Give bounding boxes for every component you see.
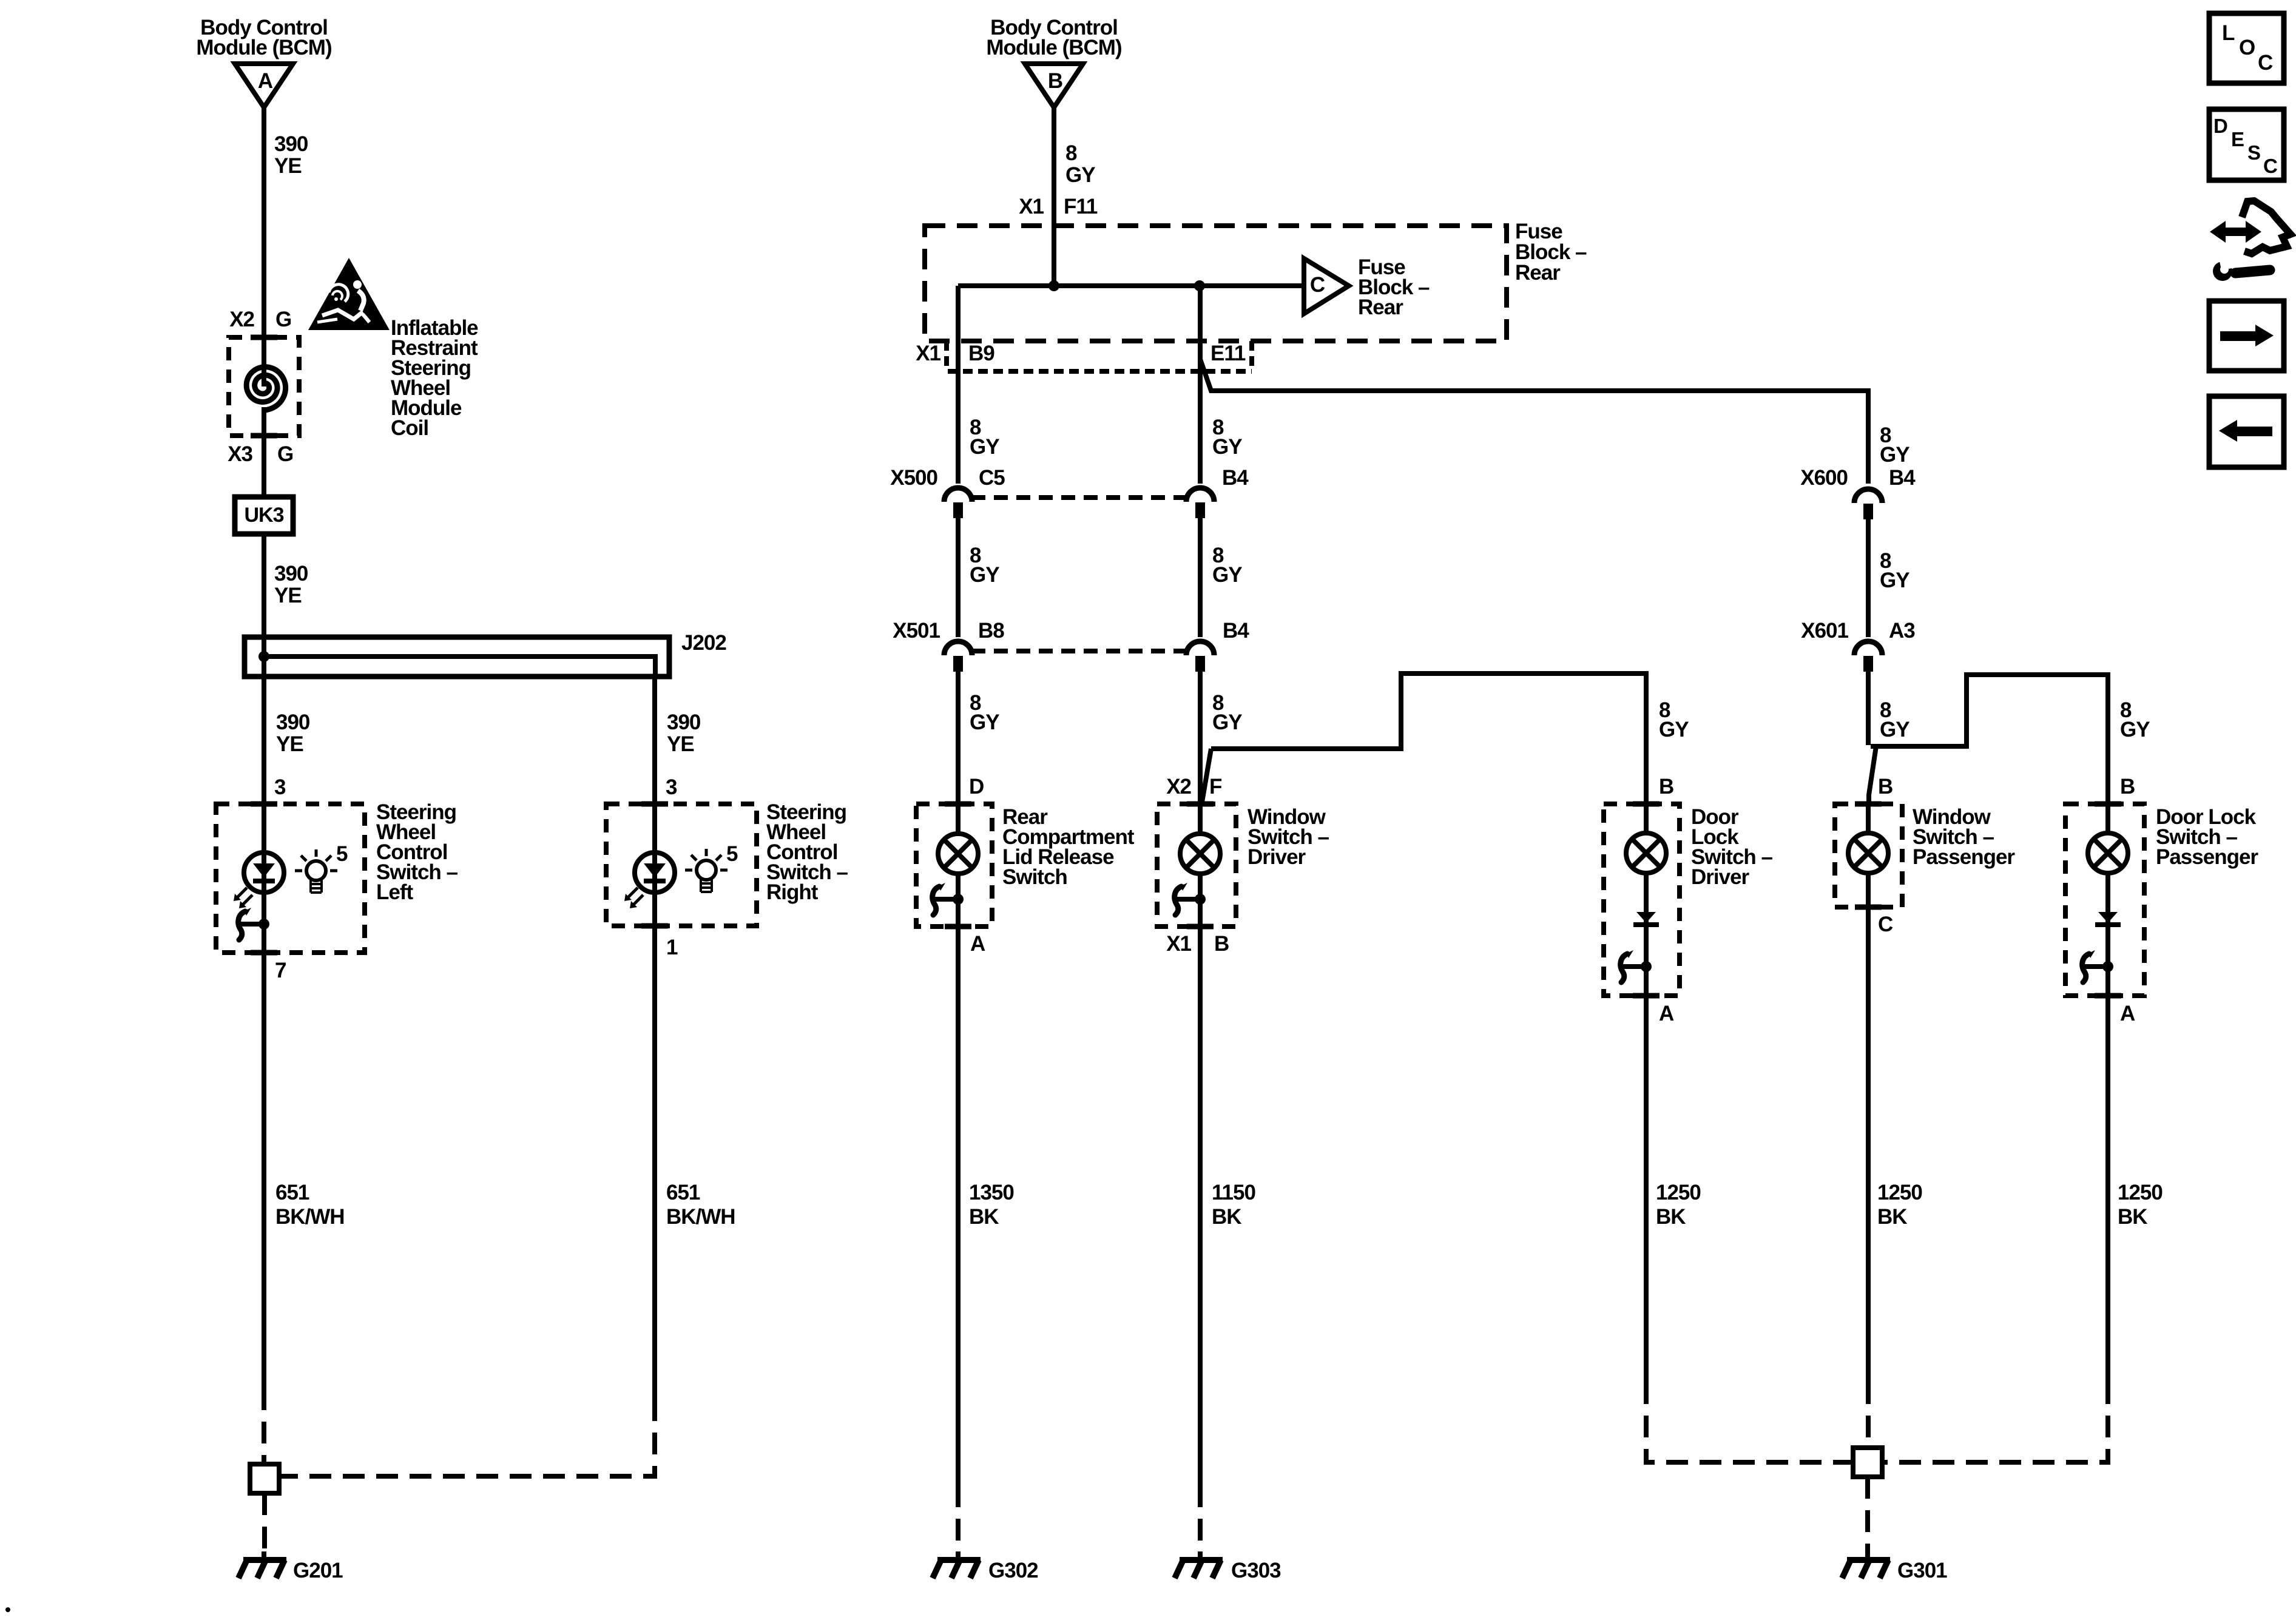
svg-text:G201: G201 <box>293 1559 343 1582</box>
svg-text:1250: 1250 <box>1877 1181 1922 1204</box>
svg-text:B4: B4 <box>1223 619 1249 643</box>
svg-text:C5: C5 <box>979 466 1005 490</box>
svg-text:Passenger: Passenger <box>2156 845 2258 869</box>
steering wheel control switch - left <box>216 800 458 982</box>
svg-text:L: L <box>2222 21 2235 45</box>
svg-text:Driver: Driver <box>1248 845 1306 869</box>
svg-text:Switch: Switch <box>1002 865 1067 889</box>
RPO code box UK3 <box>235 497 293 534</box>
ground G302 <box>933 1551 1038 1582</box>
wire 1250 BK from window switch passenger <box>1868 907 1922 1382</box>
svg-text:G302: G302 <box>988 1559 1038 1582</box>
wire 8 GY X500 to X501 right <box>1200 518 1242 637</box>
svg-text:BK/WH: BK/WH <box>666 1205 735 1229</box>
wire 390 YE from UK3 to splice J202 <box>264 534 308 637</box>
ground G303 <box>1175 1551 1281 1582</box>
svg-text:F11: F11 <box>1064 195 1098 218</box>
svg-text:E11: E11 <box>1210 342 1246 365</box>
svg-text:GY: GY <box>970 435 999 459</box>
svg-text:651: 651 <box>666 1181 700 1204</box>
svg-text:D: D <box>969 775 984 798</box>
connector label X2 G <box>229 308 291 331</box>
svg-text:BK: BK <box>969 1205 999 1229</box>
svg-text:GY: GY <box>1212 711 1242 734</box>
svg-text:390: 390 <box>274 562 308 586</box>
wire 8 GY X600 to X601 <box>1868 519 1909 637</box>
lead to ground G301 <box>1865 1477 1870 1551</box>
connector label X3 G <box>228 442 293 466</box>
svg-text:Driver: Driver <box>1691 865 1750 889</box>
airbag warning triangle <box>308 258 390 330</box>
wire 390 YE from BCM A down to coil <box>264 107 308 337</box>
svg-text:C: C <box>2263 155 2278 177</box>
lead to ground G201 <box>262 1493 267 1551</box>
wire 1250 BK from door lock passenger <box>2108 996 2163 1382</box>
svg-text:B8: B8 <box>978 619 1004 643</box>
svg-text:YE: YE <box>276 732 303 756</box>
wire 8 GY from E11 to right side (X600) <box>1200 359 1909 484</box>
in-line connector X600 (B4) <box>1800 466 1916 519</box>
wire 390 YE left branch to steering wheel switch left <box>264 637 310 1388</box>
svg-text:A: A <box>258 69 273 93</box>
svg-text:5: 5 <box>336 842 348 866</box>
svg-text:G303: G303 <box>1231 1559 1281 1582</box>
svg-text:A: A <box>970 932 985 956</box>
svg-text:YE: YE <box>274 154 302 178</box>
window switch - passenger <box>1835 804 2015 936</box>
wire 1350 BK to ground G302 <box>958 1181 1014 1551</box>
svg-text:Right: Right <box>766 880 819 904</box>
svg-text:X501: X501 <box>893 619 940 643</box>
svg-text:YE: YE <box>667 732 694 756</box>
splice for G201 leads <box>250 1464 279 1493</box>
DESC legend box <box>2209 109 2284 180</box>
svg-text:GY: GY <box>1880 718 1909 741</box>
fuse block - rear dashed box <box>925 220 1587 341</box>
door lock switch - passenger <box>2065 804 2258 1025</box>
wire 8 GY from E11 down to X500 B4 <box>1200 371 1242 484</box>
connector triangle B - Body Control Module (BCM) <box>986 16 1121 107</box>
svg-text:B: B <box>2120 775 2135 798</box>
svg-text:3: 3 <box>274 775 286 799</box>
svg-text:J202: J202 <box>681 631 726 655</box>
left arrow legend box <box>2209 396 2284 467</box>
svg-text:Rear: Rear <box>1515 261 1561 285</box>
svg-text:GY: GY <box>1212 435 1242 459</box>
wire 8 GY X501 to rear compartment lid release switch <box>958 672 999 1485</box>
svg-text:X1: X1 <box>1019 195 1044 218</box>
svg-text:YE: YE <box>274 584 302 607</box>
window switch - driver <box>1157 804 1329 956</box>
in-line connector X501 (B8 / B4) <box>893 619 1249 672</box>
wire 8 GY from BCM B to fuse block <box>1054 107 1095 286</box>
ground G201 <box>238 1551 343 1582</box>
svg-text:G: G <box>275 308 291 331</box>
wire 8 GY X501 to window switch driver <box>1200 672 1242 1485</box>
svg-text:E: E <box>2231 128 2244 150</box>
svg-text:X1: X1 <box>916 342 940 365</box>
fuse block output connector row X1 B9 E11 <box>916 341 1252 371</box>
splice pack J202 <box>245 631 726 677</box>
svg-text:A: A <box>2120 1002 2135 1025</box>
svg-text:390: 390 <box>276 711 310 734</box>
door lock switch - driver <box>1604 804 1773 1025</box>
splice for G301 leads <box>1853 1448 1882 1477</box>
svg-text:BK: BK <box>1656 1205 1686 1229</box>
pin labels X2 F window switch driver <box>1166 775 1222 798</box>
svg-text:X600: X600 <box>1800 466 1848 490</box>
branch wire to door lock switch passenger <box>1871 675 2150 804</box>
svg-text:X2: X2 <box>1166 775 1191 798</box>
wire 8 GY X500 to X501 left <box>958 518 999 637</box>
connector service icon (arrow and wrench) <box>2210 201 2291 281</box>
in-line connector X601 (A3) <box>1801 619 1915 672</box>
svg-text:GY: GY <box>970 563 999 587</box>
svg-text:Coil: Coil <box>391 416 428 440</box>
svg-text:Module (BCM): Module (BCM) <box>986 36 1121 59</box>
junction on J202 bus <box>258 651 269 662</box>
svg-text:C: C <box>1310 273 1325 297</box>
inflatable restraint steering wheel module coil (clockspring) <box>229 316 478 440</box>
svg-text:D: D <box>2213 115 2228 137</box>
svg-text:G: G <box>277 442 293 466</box>
svg-text:Passenger: Passenger <box>1913 845 2015 869</box>
svg-text:GY: GY <box>1880 569 1909 592</box>
wire 390 YE right branch to steering wheel switch right <box>655 677 701 1399</box>
wire from coil to UK3 <box>262 436 266 497</box>
ground leads to splice for G301 <box>1646 1382 2108 1462</box>
svg-text:B9: B9 <box>968 342 994 365</box>
connector triangle C - Fuse Block Rear <box>1304 255 1430 319</box>
svg-text:B: B <box>1659 775 1673 798</box>
svg-text:BK: BK <box>2118 1205 2147 1229</box>
svg-text:8: 8 <box>1065 141 1077 165</box>
svg-text:X1: X1 <box>1166 932 1191 956</box>
svg-text:BK/WH: BK/WH <box>275 1205 345 1229</box>
svg-text:B: B <box>1214 932 1229 956</box>
svg-text:Module (BCM): Module (BCM) <box>196 36 331 59</box>
svg-text:C: C <box>2258 51 2273 75</box>
steering wheel control switch - right <box>606 800 848 959</box>
svg-text:Rear: Rear <box>1358 295 1403 319</box>
wire 651 BK/WH right to splice <box>280 1181 735 1476</box>
svg-text:GY: GY <box>1212 563 1242 587</box>
wire 1250 BK from door lock driver <box>1646 996 1701 1382</box>
right arrow legend box <box>2209 301 2284 371</box>
connector triangle A - Body Control Module (BCM) <box>196 16 331 107</box>
connector label X1 F11 <box>1019 195 1098 218</box>
svg-text:GY: GY <box>1659 718 1689 741</box>
svg-text:X2: X2 <box>229 308 254 331</box>
svg-text:G301: G301 <box>1897 1559 1947 1582</box>
svg-text:BK: BK <box>1877 1205 1907 1229</box>
svg-text:X500: X500 <box>890 466 937 490</box>
fuse block internal wiring <box>958 286 1304 371</box>
svg-text:3: 3 <box>666 775 677 799</box>
junction at F11 feed <box>1048 280 1059 291</box>
svg-text:O: O <box>2239 36 2255 59</box>
svg-text:B: B <box>1878 775 1893 798</box>
svg-text:A: A <box>1659 1002 1674 1025</box>
svg-text:UK3: UK3 <box>244 504 283 527</box>
LOC legend box <box>2209 13 2284 83</box>
svg-text:X601: X601 <box>1801 619 1848 643</box>
svg-text:B: B <box>1048 69 1062 93</box>
ground G301 <box>1842 1551 1947 1582</box>
svg-text:A3: A3 <box>1889 619 1915 643</box>
wire 8 GY X601 to window switch passenger <box>1868 672 1909 804</box>
svg-text:5: 5 <box>726 842 738 866</box>
svg-text:B4: B4 <box>1889 466 1916 490</box>
rear compartment lid release switch <box>916 804 1135 956</box>
branch wire to door lock switch driver <box>1202 673 1689 804</box>
svg-text:F: F <box>1209 775 1222 798</box>
svg-text:1350: 1350 <box>969 1181 1014 1204</box>
svg-text:C: C <box>1878 913 1893 936</box>
svg-text:GY: GY <box>1065 163 1095 187</box>
svg-text:Left: Left <box>376 880 414 904</box>
svg-text:1250: 1250 <box>1656 1181 1701 1204</box>
svg-text:390: 390 <box>667 711 701 734</box>
svg-text:7: 7 <box>275 959 286 982</box>
svg-text:S: S <box>2247 141 2261 164</box>
in-line connector X500 (C5 / B4) <box>890 466 1249 518</box>
svg-text:GY: GY <box>970 711 999 734</box>
junction at E11 branch <box>1194 280 1205 291</box>
svg-text:GY: GY <box>1880 443 1909 467</box>
svg-text:B4: B4 <box>1222 466 1249 490</box>
svg-text:1: 1 <box>666 936 678 959</box>
svg-text:651: 651 <box>275 1181 309 1204</box>
wire 8 GY from B9 down to X500 <box>958 371 999 484</box>
svg-text:1250: 1250 <box>2118 1181 2163 1204</box>
page mark <box>5 1607 10 1612</box>
svg-text:1150: 1150 <box>1212 1181 1255 1204</box>
svg-text:BK: BK <box>1212 1205 1241 1229</box>
svg-text:GY: GY <box>2120 718 2150 741</box>
wire 1150 BK to ground G303 <box>1200 1181 1255 1551</box>
svg-text:X3: X3 <box>228 442 252 466</box>
wire 651 BK/WH left to splice <box>264 1181 345 1462</box>
svg-text:390: 390 <box>274 132 308 156</box>
